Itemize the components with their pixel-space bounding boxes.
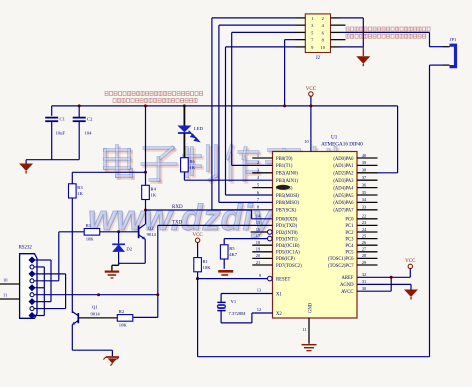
svg-text:GND: GND	[309, 302, 314, 313]
svg-text:JP1: JP1	[450, 37, 457, 42]
svg-text:11: 11	[302, 327, 306, 332]
svg-text:10K: 10K	[86, 236, 95, 241]
svg-text:PC2: PC2	[345, 231, 354, 236]
svg-text:1K: 1K	[151, 193, 157, 198]
svg-text:PD7(TOSC2): PD7(TOSC2)	[276, 264, 302, 269]
svg-text:(TOSC2)PC7: (TOSC2)PC7	[328, 264, 354, 269]
svg-text:TXD: TXD	[172, 220, 183, 225]
svg-text:VCC: VCC	[306, 87, 317, 92]
svg-text:PB0(T0): PB0(T0)	[276, 157, 293, 162]
svg-text:22: 22	[362, 214, 366, 219]
svg-text:Y1: Y1	[231, 299, 237, 304]
svg-text:D2: D2	[126, 247, 132, 252]
svg-text:10K: 10K	[203, 265, 212, 270]
svg-text:2: 2	[322, 16, 324, 21]
svg-text:C2: C2	[87, 117, 93, 122]
svg-text:PC1: PC1	[345, 224, 354, 229]
svg-text:PC4: PC4	[345, 244, 354, 249]
svg-text:RESET: RESET	[276, 277, 290, 282]
svg-text:R6: R6	[189, 159, 195, 164]
svg-text:(AD1)PA1: (AD1)PA1	[333, 164, 354, 169]
svg-text:RXD: RXD	[172, 205, 183, 210]
svg-text:(AD2)PA2: (AD2)PA2	[333, 172, 354, 177]
svg-text:12: 12	[257, 307, 261, 312]
svg-text:PB6(MISO): PB6(MISO)	[276, 201, 299, 206]
svg-text:Q1: Q1	[92, 305, 98, 310]
svg-text:X2: X2	[276, 312, 282, 317]
svg-text:PD5(OC1A): PD5(OC1A)	[276, 251, 300, 256]
svg-text:PD1(TXD): PD1(TXD)	[276, 224, 298, 229]
svg-text:PB1(T1): PB1(T1)	[276, 164, 293, 169]
svg-text:2: 2	[257, 160, 259, 165]
svg-text:R3: R3	[77, 185, 83, 190]
svg-text:9014: 9014	[147, 232, 157, 237]
svg-text:PC3: PC3	[345, 237, 354, 242]
svg-text:R5: R5	[229, 246, 235, 251]
svg-text:1: 1	[257, 153, 259, 158]
svg-text:104: 104	[85, 131, 93, 136]
svg-text:11: 11	[3, 293, 7, 298]
svg-text:C1: C1	[60, 117, 66, 122]
svg-text:(AD4)PA4: (AD4)PA4	[333, 186, 354, 191]
svg-text:10uF: 10uF	[56, 131, 66, 136]
svg-text:(TOSC1)PC6: (TOSC1)PC6	[328, 257, 354, 262]
svg-text:R2: R2	[119, 309, 125, 314]
svg-text:R1: R1	[203, 259, 209, 264]
svg-text:(AD3)PA3: (AD3)PA3	[333, 179, 354, 184]
svg-text:1: 1	[311, 16, 313, 21]
svg-text:RS232: RS232	[19, 245, 33, 250]
svg-text:(AD5)PA5: (AD5)PA5	[333, 194, 354, 199]
svg-text:1K: 1K	[189, 165, 195, 170]
svg-text:PB3(AIN1): PB3(AIN1)	[276, 179, 298, 184]
svg-text:U1: U1	[331, 135, 338, 141]
svg-text:31: 31	[362, 279, 366, 284]
svg-text:(AD7)PA7: (AD7)PA7	[333, 209, 354, 214]
svg-text:32: 32	[362, 272, 366, 277]
svg-text:VCC: VCC	[405, 259, 416, 264]
svg-text:PD2(INT0): PD2(INT0)	[276, 231, 298, 236]
svg-text:Q2: Q2	[148, 226, 154, 231]
svg-text:(AD6)PA6: (AD6)PA6	[333, 201, 354, 206]
svg-text:LED: LED	[194, 126, 204, 131]
svg-text:AVCC: AVCC	[341, 290, 353, 295]
svg-text:PD4(OC1B): PD4(OC1B)	[276, 244, 300, 249]
svg-text:PB5(MOSI): PB5(MOSI)	[276, 194, 299, 199]
svg-text:PC5: PC5	[345, 251, 354, 256]
svg-text:X1: X1	[276, 292, 282, 297]
svg-text:7.3728M: 7.3728M	[229, 311, 246, 316]
svg-text:J2: J2	[316, 56, 321, 61]
svg-text:1K: 1K	[77, 191, 83, 196]
svg-text:PB2(AIN0): PB2(AIN0)	[276, 172, 298, 177]
svg-text:ATMEGA16 DIP40: ATMEGA16 DIP40	[321, 142, 363, 148]
svg-text:10K: 10K	[119, 322, 128, 327]
svg-text:10: 10	[321, 45, 326, 50]
svg-text:4K7: 4K7	[229, 252, 238, 257]
svg-text:VCC: VCC	[192, 233, 203, 238]
svg-text:PD3(INT1): PD3(INT1)	[276, 237, 298, 242]
svg-text:PB7(SCK): PB7(SCK)	[276, 209, 297, 214]
svg-text:AREF: AREF	[342, 276, 354, 281]
svg-text:(AD0)PA0: (AD0)PA0	[333, 157, 354, 162]
svg-text:AGND: AGND	[340, 283, 354, 288]
svg-text:R1: R1	[86, 223, 92, 228]
svg-text:PD0(RXD): PD0(RXD)	[276, 218, 298, 223]
svg-text:21: 21	[256, 260, 260, 265]
svg-text:PC0: PC0	[345, 218, 354, 223]
svg-text:PD6(ICP): PD6(ICP)	[276, 257, 295, 262]
svg-text:9014: 9014	[91, 312, 101, 317]
svg-text:R4: R4	[151, 187, 157, 192]
